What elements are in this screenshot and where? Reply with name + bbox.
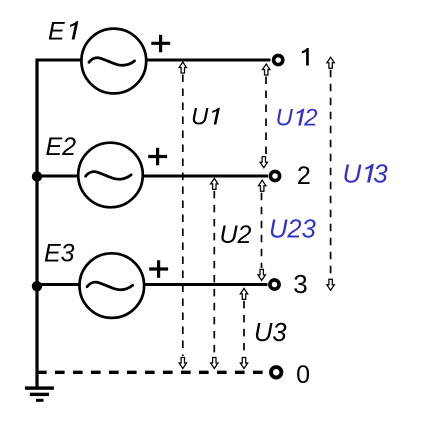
svg-text:2: 2 — [303, 105, 317, 132]
label node 3 — [293, 269, 307, 299]
svg-text:U23: U23 — [269, 216, 316, 244]
wire bus to E1 — [36, 58, 84, 61]
svg-text:E2: E2 — [46, 133, 77, 161]
plus sign E1 — [151, 35, 170, 53]
plus sign E3 — [149, 260, 168, 278]
label U1 — [191, 104, 220, 131]
label U13 — [343, 159, 389, 189]
ac source E1 — [81, 29, 146, 94]
label node 0 — [296, 361, 310, 389]
voltage arrow U1 (node 1 to node 0) — [179, 62, 186, 369]
wire E2 to terminal 2 — [143, 174, 269, 177]
svg-text:3: 3 — [293, 269, 307, 299]
label node 2 — [297, 162, 311, 190]
svg-text:E3: E3 — [44, 240, 75, 268]
voltage arrow U2 (node 2 to node 0) — [211, 178, 218, 368]
voltage arrow U3 (node 3 to node 0) — [240, 288, 247, 368]
wire bus to E3 — [36, 283, 82, 286]
voltage arrow U12 (node 1 to node 2) — [260, 64, 270, 168]
label U2 — [220, 221, 252, 249]
ac source E3 — [80, 253, 145, 318]
junction at E2 row — [32, 171, 42, 181]
junction at E3 row — [32, 281, 42, 291]
wire bus to E2 — [36, 174, 81, 177]
ground — [25, 386, 54, 401]
label E2 — [46, 133, 77, 161]
terminal 3 — [270, 280, 279, 289]
svg-text:U2: U2 — [220, 221, 252, 249]
neutral dashed wire 0 — [37, 371, 268, 374]
plus sign E2 — [148, 148, 167, 166]
ac source E2 — [78, 143, 143, 208]
wire E3 to terminal 3 — [144, 283, 268, 286]
label U3 — [254, 319, 287, 347]
label E1 — [48, 18, 78, 46]
wire E1 to terminal 1 — [146, 58, 271, 61]
terminal 1 — [274, 55, 283, 64]
label node 1 — [302, 48, 309, 66]
terminal 2 — [270, 171, 279, 180]
svg-text:U: U — [276, 105, 294, 132]
svg-text:U: U — [191, 104, 209, 131]
svg-text:U: U — [343, 159, 362, 189]
terminal 0 — [271, 367, 281, 377]
wire left vertical bus — [35, 59, 38, 389]
label U23 — [269, 216, 316, 244]
label E3 — [44, 240, 75, 268]
svg-text:3: 3 — [373, 159, 388, 189]
voltage arrow U23 (node 2 to node 3) — [258, 180, 266, 280]
svg-text:0: 0 — [296, 361, 310, 389]
voltage arrow U13 (node 1 to node 3) — [327, 57, 334, 290]
svg-text:U3: U3 — [254, 319, 287, 347]
label U12 — [276, 105, 318, 132]
svg-text:2: 2 — [297, 162, 311, 190]
svg-text:E: E — [48, 18, 65, 46]
